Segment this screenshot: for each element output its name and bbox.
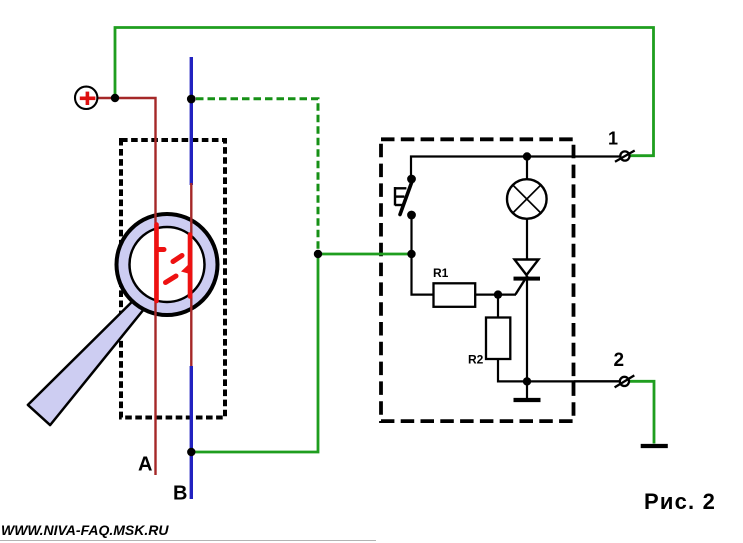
wire node down to R2: [497, 295, 499, 318]
svg-text:R2: R2: [468, 353, 484, 367]
damage mark dash middle: [173, 256, 182, 262]
magnifier handle: [28, 296, 148, 426]
ground inside relay: [526, 381, 528, 398]
resistor R2: [486, 318, 510, 360]
wire thyristor to bottom rail: [526, 280, 528, 381]
wire A red from + terminal down: [96, 98, 156, 475]
lamp HL: [526, 157, 528, 180]
damage mark tick: [158, 247, 164, 252]
wire B damaged red middle segment: [190, 183, 192, 367]
dotted inspection box: [121, 140, 225, 418]
wire B blue lower segment: [190, 366, 193, 499]
dashed relay box: [381, 139, 574, 421]
svg-text:В: В: [173, 483, 187, 505]
magnified wire B thick red: [188, 235, 193, 297]
svg-text:2: 2: [614, 350, 625, 371]
terminal + positive supply: [75, 87, 97, 109]
wire green dashed tap: [196, 99, 318, 254]
magnifier lens ring: [117, 214, 218, 315]
damage mark wedge: [181, 263, 190, 274]
rule bottom: [0, 540, 376, 542]
thyristor VS: [515, 260, 539, 276]
svg-text:R1: R1: [433, 266, 449, 280]
wire green connector 2 to ground: [630, 381, 655, 443]
resistor R1: [434, 283, 476, 307]
wire lamp to thyristor: [526, 219, 528, 260]
wire green top loop: [115, 28, 654, 156]
wire R1 to node: [475, 294, 516, 296]
svg-text:А: А: [138, 454, 152, 476]
wire green solid into relay box: [192, 254, 412, 452]
damage mark dash lower: [166, 276, 177, 283]
switch lever: [400, 180, 413, 215]
ground external: [641, 444, 668, 448]
wire switch to R1 corner: [412, 215, 434, 295]
switch actuator comb: [395, 187, 406, 206]
wire R2 to bottom rail: [498, 359, 620, 381]
magnified wire A thick red: [154, 225, 159, 302]
svg-text:Рис. 2: Рис. 2: [644, 489, 716, 514]
connector 2: [574, 380, 620, 382]
connector 1: [620, 151, 629, 160]
svg-text:1: 1: [608, 129, 618, 149]
wire relay top rail: [411, 157, 620, 180]
wire B blue upper segment: [190, 57, 193, 185]
svg-text:WWW.NIVA-FAQ.MSK.RU: WWW.NIVA-FAQ.MSK.RU: [1, 522, 169, 538]
thyristor gate wire: [516, 276, 528, 295]
